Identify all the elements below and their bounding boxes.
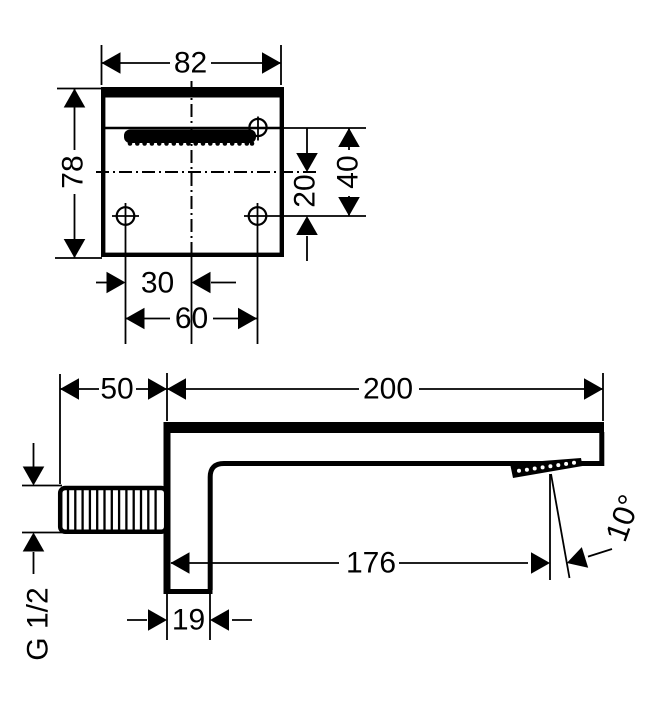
dim 82 arrow left <box>102 52 121 74</box>
slot bar (hatched slot) <box>124 130 256 144</box>
dim 82 extension right <box>280 45 282 85</box>
dim 19 extension left <box>166 594 168 640</box>
dim 176 arrow left <box>171 552 190 574</box>
dim 82 arrow right <box>262 52 281 74</box>
G1/2 lower tail <box>33 552 35 574</box>
horizontal centerline (dash-dot) <box>96 171 316 173</box>
dim 20 arrow up (to hole line) <box>296 216 318 235</box>
aerator (tilted, dotted) <box>510 458 583 478</box>
dim 78 arrow down <box>64 239 86 258</box>
dim 50 arrow right <box>148 378 167 400</box>
dim 60 arrow right <box>238 308 257 330</box>
screw hole left horizontal tick <box>112 215 139 217</box>
dim 40 line <box>348 128 350 150</box>
dim 78 extension bottom <box>55 257 102 259</box>
dim 200 extension right <box>602 373 604 421</box>
G1/2 arrow down <box>23 467 45 486</box>
dim 200 line <box>167 388 359 390</box>
svg-text:200: 200 <box>363 373 413 406</box>
dim 78 arrow up <box>64 89 86 108</box>
svg-text:30: 30 <box>141 267 174 300</box>
dim 50 line <box>60 388 99 390</box>
G1/2 upper tail <box>33 443 35 467</box>
screw hole right horizontal tick + extension to 20/40 dims <box>244 215 366 217</box>
dim 82 extension left <box>101 45 103 85</box>
dim 40 arrow down <box>338 197 360 216</box>
dim 50 extension left <box>59 374 61 484</box>
dim 30 arrow right <box>107 272 126 294</box>
dim 19 arrow right <box>148 609 167 631</box>
threaded pipe outline <box>60 488 166 532</box>
dim 19 right tail <box>232 619 252 621</box>
10 deg leader tail <box>588 549 612 557</box>
vertical centerline (dash-dot) <box>191 81 193 256</box>
slot hole vertical tick <box>257 117 259 141</box>
spout tip vertical line <box>549 474 551 580</box>
svg-text:60: 60 <box>175 302 208 335</box>
dim 60 arrow left <box>126 308 145 330</box>
extension line from left hole down <box>125 203 127 344</box>
svg-text:50: 50 <box>100 373 133 406</box>
dim 78 line <box>74 89 76 151</box>
dim 19 arrow left <box>210 609 229 631</box>
svg-text:G 1/2: G 1/2 <box>22 587 55 660</box>
G1/2 extension bottom <box>22 532 62 534</box>
spout tip 10 deg slant line <box>551 474 570 578</box>
dim 50 arrow left <box>60 378 79 400</box>
dim 40 extension top (from slot hole) <box>267 127 366 129</box>
plate bottom edge <box>164 589 213 594</box>
G1/2 extension top <box>22 485 62 487</box>
dim 60 line <box>126 318 171 320</box>
screw hole right <box>249 207 267 225</box>
dim 19 extension right <box>209 594 211 640</box>
wall face line <box>164 422 171 592</box>
dim 200 arrow right <box>584 378 603 400</box>
dim 200 arrow left <box>167 378 186 400</box>
dim 20 upper tail <box>306 128 308 153</box>
svg-text:78: 78 <box>57 155 90 188</box>
10 deg angle arrow <box>567 547 588 568</box>
dim 20 lower tail <box>306 236 308 261</box>
dim 176 arrow right <box>531 552 550 574</box>
svg-text:40: 40 <box>332 155 365 188</box>
wall plate top bar <box>101 87 284 98</box>
spout top bar <box>164 422 605 433</box>
svg-text:20: 20 <box>289 174 322 207</box>
svg-text:176: 176 <box>346 547 396 580</box>
vertical center extension below plate <box>191 256 193 344</box>
G1/2 arrow up <box>23 533 45 552</box>
dim 40 arrow up <box>338 128 360 147</box>
dim 19 left tail <box>127 619 147 621</box>
dim 176 line <box>171 562 339 564</box>
screw hole left <box>117 207 135 225</box>
svg-text:19: 19 <box>172 604 205 637</box>
slot line across plate <box>101 127 284 129</box>
dim 50/200 shared extension <box>166 373 168 421</box>
pipe thread hatch <box>68 489 156 531</box>
slot bar scallops <box>128 141 255 146</box>
extension line from right hole down <box>257 203 259 344</box>
dim 30 right tail <box>211 282 236 284</box>
dim 30 left tail <box>96 282 107 284</box>
wall plate outline <box>103 92 282 255</box>
dim 30 arrow left <box>192 272 211 294</box>
dim 78 extension top <box>57 88 104 90</box>
spout body outline: right face, underside, inner profile <box>210 432 602 590</box>
dim 20 arrow down (to centerline) <box>296 153 318 172</box>
slot end hole circle <box>249 119 266 136</box>
dim 82 line <box>102 62 171 64</box>
svg-text:82: 82 <box>174 47 207 80</box>
